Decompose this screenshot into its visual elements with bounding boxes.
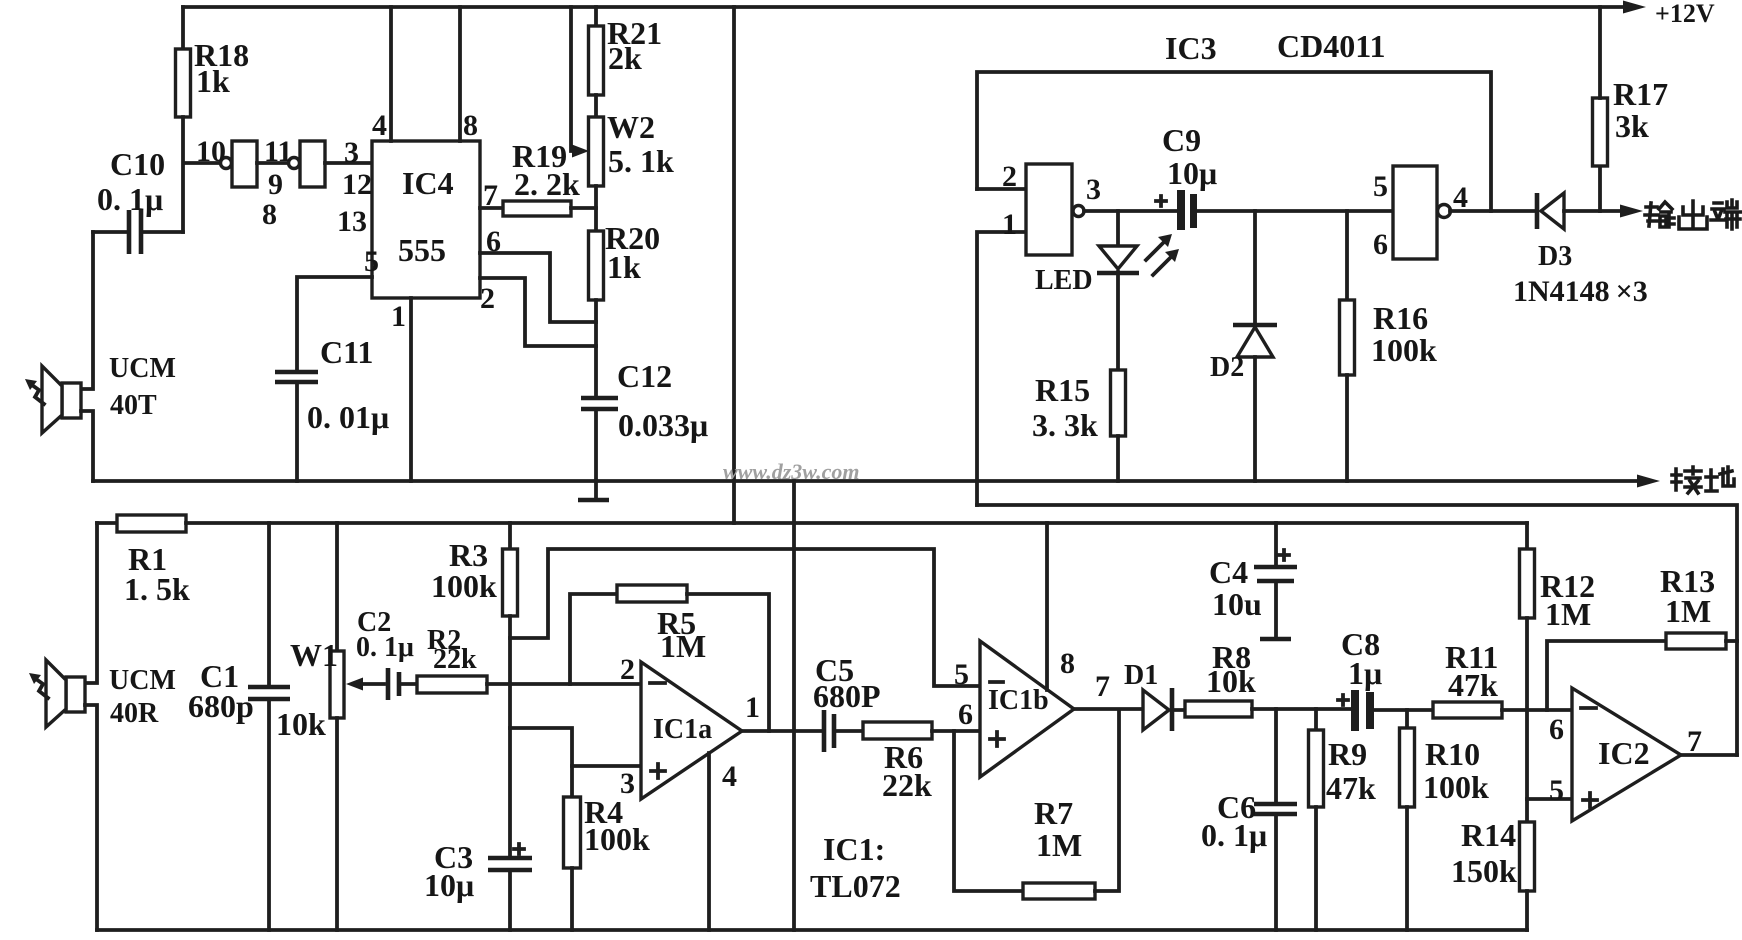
- gate IC3a output bubble pin3: [1073, 206, 1084, 217]
- node W2 wiper arrow: [572, 145, 589, 158]
- wire R16 drop: [1345, 211, 1349, 300]
- svg-text:7: 7: [483, 179, 498, 212]
- svg-text:10u: 10u: [1212, 586, 1262, 622]
- svg-text:0. 1μ: 0. 1μ: [1201, 817, 1267, 853]
- op-amp IC1a: [641, 662, 742, 799]
- wire R17 to output node: [1598, 166, 1602, 211]
- capacitor C1: [248, 687, 290, 699]
- wire R17 top to rail: [1598, 7, 1602, 98]
- wire LED drop: [1116, 211, 1120, 246]
- svg-text:2: 2: [480, 282, 495, 315]
- svg-text:3k: 3k: [1615, 108, 1649, 144]
- wire IC1a pin3 lead: [572, 764, 641, 768]
- svg-text:R9: R9: [1328, 736, 1367, 772]
- svg-text:C9: C9: [1162, 122, 1201, 158]
- svg-text:TL072: TL072: [810, 868, 901, 904]
- transducer UCM 40T: [62, 383, 81, 418]
- svg-text:1M: 1M: [660, 628, 706, 664]
- wire R20 bottom to C12: [594, 300, 598, 395]
- svg-text:1k: 1k: [196, 63, 230, 99]
- svg-text:1: 1: [1002, 208, 1017, 241]
- capacitor C12: [581, 398, 618, 409]
- wire transducer 40R bottom to lower rail: [85, 705, 97, 930]
- svg-text:1μ: 1μ: [1348, 655, 1382, 691]
- svg-text:0. 1μ: 0. 1μ: [356, 632, 414, 663]
- capacitor C8 polarized: [1351, 690, 1359, 731]
- wire C11 to ground rail: [295, 384, 299, 481]
- resistor R19: [503, 201, 571, 216]
- svg-text:100k: 100k: [1423, 769, 1489, 805]
- wire R14 to lower rail: [1525, 891, 1529, 930]
- capacitor C11: [275, 372, 318, 382]
- wire IC2 output: [1681, 753, 1737, 757]
- svg-text:4: 4: [1453, 181, 1468, 214]
- svg-text:680p: 680p: [188, 688, 254, 724]
- wire C10 left lead: [93, 230, 127, 234]
- svg-text:6: 6: [958, 698, 973, 731]
- svg-text:10k: 10k: [276, 706, 326, 742]
- svg-text:0. 01μ: 0. 01μ: [307, 399, 389, 435]
- svg-text:100k: 100k: [431, 568, 497, 604]
- svg-text:10μ: 10μ: [424, 867, 474, 903]
- svg-text:IC1b: IC1b: [988, 685, 1049, 716]
- resistor R7 feedback: [954, 731, 1023, 891]
- node +12V arrow: [1623, 1, 1646, 14]
- wire R9 to lower rail: [1314, 807, 1318, 930]
- svg-text:5: 5: [954, 658, 969, 691]
- capacitor C9 polarized: [1177, 190, 1185, 230]
- resistor R20: [589, 231, 604, 300]
- capacitor C4 polarized: [1274, 523, 1278, 565]
- svg-text:IC1a: IC1a: [653, 714, 712, 745]
- wire NAND1 output to C9: [1084, 209, 1177, 213]
- svg-text:1: 1: [391, 300, 406, 333]
- capacitor C3 polarized: [488, 858, 532, 870]
- resistor R16: [1340, 300, 1355, 375]
- gate IC3a NAND1 body: [1026, 164, 1072, 255]
- wire D3 to output terminal: [1564, 209, 1622, 213]
- wire R15 to ground rail: [1116, 436, 1120, 481]
- svg-text:W2: W2: [607, 109, 655, 145]
- wire R13 to output edge: [1726, 639, 1737, 643]
- wire R6 to IC1b pin6: [932, 729, 980, 733]
- wire ground rail: [93, 479, 1640, 483]
- wire R12 drop from rail corner: [1525, 523, 1529, 549]
- resistor R12: [1520, 549, 1535, 618]
- wire ground drop upper to lower rail: [792, 481, 796, 930]
- wire W2 to R20: [594, 186, 598, 231]
- wire R10 to lower rail: [1405, 807, 1409, 930]
- node ground arrow: [1637, 475, 1660, 488]
- svg-text:1: 1: [745, 691, 760, 724]
- resistor R18: [176, 49, 191, 117]
- svg-text:100k: 100k: [1371, 332, 1437, 368]
- wire divider to R4 branch: [510, 728, 572, 797]
- wire lower +12 rail left: [97, 521, 117, 525]
- svg-text:3. 3k: 3. 3k: [1032, 407, 1098, 443]
- wire C3 to lower rail: [508, 872, 512, 930]
- svg-text:5: 5: [1373, 170, 1388, 203]
- svg-text:D3: D3: [1538, 241, 1572, 272]
- svg-text:D1: D1: [1124, 660, 1158, 691]
- svg-text:22k: 22k: [882, 767, 932, 803]
- svg-text:5: 5: [364, 245, 379, 278]
- svg-text:680P: 680P: [813, 678, 881, 714]
- wire D2 drop: [1253, 211, 1257, 324]
- resistor R15: [1111, 370, 1126, 436]
- svg-text:CD4011: CD4011: [1277, 28, 1385, 64]
- svg-text:47k: 47k: [1326, 770, 1376, 806]
- wire IC1b pin8 drop: [1045, 523, 1049, 690]
- resistor R1: [117, 515, 186, 532]
- svg-text:40R: 40R: [110, 698, 159, 729]
- svg-text:1M: 1M: [1545, 596, 1591, 632]
- svg-text:1k: 1k: [607, 249, 641, 285]
- svg-text:R15: R15: [1035, 372, 1090, 408]
- svg-text:LED: LED: [1035, 265, 1093, 296]
- svg-text:1M: 1M: [1036, 827, 1082, 863]
- svg-text:UCM: UCM: [109, 353, 176, 384]
- svg-text:+12V: +12V: [1655, 0, 1715, 28]
- svg-text:7: 7: [1687, 725, 1702, 758]
- wire IC1a output: [742, 729, 822, 733]
- wire R11 to IC2 pin6: [1502, 708, 1572, 712]
- wire R3 bottom divider vertical: [508, 616, 512, 857]
- label ground terminal CJK: [1672, 467, 1701, 493]
- svg-text:10: 10: [196, 135, 226, 168]
- svg-text:R10: R10: [1425, 736, 1480, 772]
- svg-text:10μ: 10μ: [1167, 155, 1217, 191]
- wire drop rail to R21: [594, 7, 598, 26]
- svg-text:7: 7: [1095, 670, 1110, 703]
- op-amp IC1b: [980, 641, 1074, 777]
- wire NAND1 pin1 lead and drop to output line: [977, 232, 1026, 505]
- svg-text:IC2: IC2: [1598, 735, 1650, 771]
- wire D2 to ground rail: [1253, 357, 1257, 481]
- resistor R13: [1666, 633, 1726, 649]
- svg-text:W1: W1: [290, 637, 338, 673]
- op IC4 555 body: [372, 141, 480, 298]
- wire R9 drop: [1314, 709, 1318, 730]
- wire gate c to IC4 pin3: [325, 161, 372, 165]
- svg-text:4: 4: [372, 109, 387, 142]
- svg-text:47k: 47k: [1448, 667, 1498, 703]
- svg-text:C4: C4: [1209, 554, 1248, 590]
- svg-text:5. 1k: 5. 1k: [608, 143, 674, 179]
- wire IC2 pin5 lead: [1527, 797, 1572, 801]
- resistor R2: [417, 676, 487, 693]
- svg-text:2: 2: [1002, 160, 1017, 193]
- svg-text:2: 2: [620, 653, 635, 686]
- svg-text:0. 1μ: 0. 1μ: [97, 181, 163, 217]
- svg-text:D2: D2: [1210, 352, 1244, 383]
- wire R19 to divider: [571, 206, 596, 210]
- wire C6 to lower rail: [1274, 815, 1278, 930]
- svg-text:4: 4: [722, 760, 737, 793]
- wire lower ground rail: [97, 928, 1527, 932]
- svg-text:R17: R17: [1613, 76, 1668, 112]
- wire C1 drop: [267, 523, 271, 686]
- wire C5 to R6: [836, 729, 863, 733]
- wire C6 drop: [1274, 709, 1278, 803]
- wire bias takeoff to IC1b pin5: [510, 549, 980, 686]
- resistor R21: [589, 26, 604, 95]
- ground stub below rail: [594, 481, 598, 499]
- svg-text:6: 6: [1373, 228, 1388, 261]
- svg-text:22k: 22k: [433, 644, 477, 675]
- op-amp IC2: [1572, 688, 1681, 821]
- node LED emission arrows: [1146, 242, 1164, 260]
- wire lower +12 rail: [186, 521, 1527, 525]
- svg-text:12: 12: [342, 168, 372, 201]
- wire drop rail to R18: [181, 7, 185, 49]
- label output terminal CJK: [1645, 202, 1674, 227]
- wire pin1 to ground rail: [409, 298, 413, 481]
- wire IC1a pin4 to lower rail: [707, 753, 711, 930]
- wire R3 drop: [508, 523, 512, 549]
- svg-text:5: 5: [1549, 774, 1564, 807]
- svg-text:555: 555: [398, 232, 446, 268]
- gate IC3c body: [300, 141, 325, 187]
- svg-text:1N4148 ×3: 1N4148 ×3: [1513, 275, 1648, 308]
- node ultrasound arrow 40R: [36, 679, 48, 698]
- diode D2: [1233, 323, 1277, 328]
- svg-text:9: 9: [268, 168, 283, 201]
- resistor R11: [1433, 702, 1502, 718]
- wire R16 to ground rail: [1345, 375, 1349, 481]
- resistor R3: [503, 549, 518, 616]
- resistor R6: [863, 722, 932, 739]
- resistor R10: [1400, 728, 1415, 807]
- svg-text:0.033μ: 0.033μ: [618, 407, 708, 443]
- capacitor C2: [388, 668, 399, 700]
- wire C10 right lead: [143, 230, 183, 234]
- gate IC3b NAND2 body: [1393, 166, 1437, 259]
- wire pin8 drop: [458, 7, 462, 141]
- svg-text:6: 6: [1549, 713, 1564, 746]
- wire R8 to C8: [1252, 707, 1351, 711]
- wire LED to R15: [1116, 272, 1120, 370]
- wire W2 wiper drop: [571, 7, 576, 151]
- capacitor C5: [824, 710, 834, 752]
- wire pin7 lead: [480, 206, 503, 210]
- diode D3: [1535, 193, 1540, 229]
- gate IC3d body: [232, 141, 257, 187]
- svg-text:3: 3: [344, 136, 359, 169]
- gate IC3b output bubble pin4: [1438, 205, 1451, 218]
- svg-text:IC4: IC4: [402, 165, 454, 201]
- diode LED: [1099, 246, 1137, 269]
- wire W1 drop: [335, 523, 339, 651]
- wire pin6 staircase: [480, 253, 596, 322]
- wire R21 to W2: [594, 95, 598, 117]
- wire C2 to R2: [401, 682, 417, 686]
- svg-text:IC3: IC3: [1165, 30, 1217, 66]
- wire +12V drop to lower rail: [732, 7, 736, 523]
- wire divider R12-R14: [1525, 618, 1529, 822]
- svg-text:6: 6: [486, 225, 501, 258]
- svg-text:C11: C11: [320, 334, 373, 370]
- wire C1 to lower rail: [267, 701, 271, 930]
- wire R18 bottom to node and C10: [183, 117, 221, 232]
- node W1 wiper arrow: [346, 678, 363, 691]
- wire IC1b output to D1: [1074, 707, 1143, 711]
- wire pin4 drop: [389, 7, 393, 141]
- gate IC3d output bubble pin10: [221, 158, 232, 169]
- svg-text:1. 5k: 1. 5k: [124, 571, 190, 607]
- wire C8 to R11: [1374, 708, 1433, 712]
- wire R2 to IC1a pin2: [487, 682, 641, 686]
- wire C9 to NAND2 input: [1197, 209, 1393, 213]
- wire IC3 feedback loop top: [977, 72, 1491, 211]
- potentiometer W1: [330, 651, 344, 718]
- resistor R17: [1593, 98, 1608, 166]
- svg-text:8: 8: [1060, 647, 1075, 680]
- transducer UCM 40R: [66, 677, 85, 712]
- capacitor C10: [129, 210, 141, 254]
- wire +12V top rail: [183, 5, 1626, 9]
- wire R13 feedback riser: [1547, 641, 1666, 710]
- wire C12 to ground rail: [594, 411, 598, 481]
- capacitor C6: [1254, 804, 1297, 814]
- svg-text:R7: R7: [1034, 795, 1073, 831]
- svg-text:1M: 1M: [1665, 593, 1711, 629]
- wire pin5 to C11: [297, 277, 372, 370]
- svg-text:IC1:: IC1:: [823, 831, 885, 867]
- resistor R8: [1185, 701, 1252, 717]
- wire lower-left edge to transducer: [85, 523, 97, 683]
- svg-text:R16: R16: [1373, 300, 1428, 336]
- svg-text:www.dz3w.com: www.dz3w.com: [723, 459, 860, 484]
- svg-text:2. 2k: 2. 2k: [514, 166, 580, 202]
- wire NAND1 pin2 lead: [977, 187, 1026, 191]
- node ultrasound arrow 40T: [32, 385, 44, 404]
- resistor R9: [1309, 730, 1324, 807]
- svg-text:150k: 150k: [1451, 853, 1517, 889]
- svg-text:3: 3: [620, 767, 635, 800]
- svg-text:100k: 100k: [584, 821, 650, 857]
- svg-text:8: 8: [463, 109, 478, 142]
- svg-text:8: 8: [262, 198, 277, 231]
- svg-text:3: 3: [1086, 173, 1101, 206]
- wire gate d to gate c: [257, 161, 288, 165]
- wire pin2 staircase: [480, 278, 596, 346]
- wire D1 to R8: [1172, 708, 1185, 712]
- svg-text:10k: 10k: [1206, 663, 1256, 699]
- wire W1 to lower rail: [335, 718, 339, 930]
- wire R10 drop: [1405, 710, 1409, 728]
- wire IC2 output return line: [977, 505, 1737, 755]
- svg-text:C12: C12: [617, 358, 672, 394]
- diode D1: [1143, 690, 1169, 730]
- wire transducer 40T bottom to ground rail: [81, 411, 93, 481]
- svg-text:11: 11: [264, 135, 292, 168]
- potentiometer W2: [589, 117, 604, 186]
- resistor R4: [564, 797, 581, 868]
- node output arrow: [1620, 205, 1643, 218]
- svg-text:2k: 2k: [608, 40, 642, 76]
- gate IC3c output bubble pin11: [289, 158, 300, 169]
- resistor R14: [1520, 822, 1535, 891]
- svg-text:R14: R14: [1461, 817, 1516, 853]
- wire R4 to lower rail: [570, 868, 574, 930]
- svg-text:UCM: UCM: [109, 665, 176, 696]
- svg-text:40T: 40T: [110, 390, 157, 421]
- wire left vertical to transducer: [81, 232, 93, 389]
- resistor R5 feedback: [570, 594, 617, 684]
- svg-text:13: 13: [337, 205, 367, 238]
- wire NAND2 output to D3: [1450, 209, 1537, 213]
- svg-text:C10: C10: [110, 146, 165, 182]
